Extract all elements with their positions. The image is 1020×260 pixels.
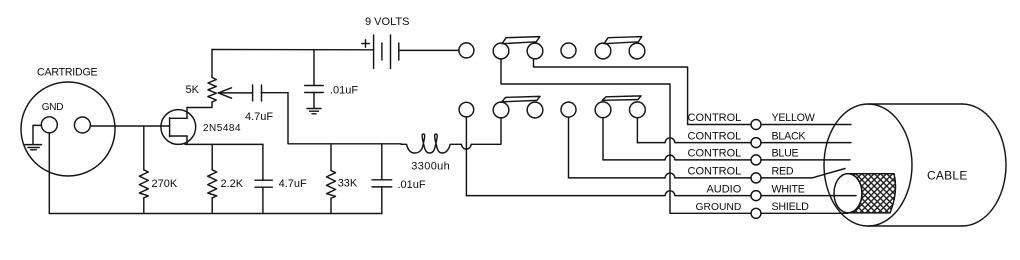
svg-text:BLACK: BLACK [772,130,807,142]
svg-text:BLUE: BLUE [772,148,799,160]
cartridge pin signal [74,117,90,133]
svg-text:2N5484: 2N5484 [203,123,241,134]
wire control black row with hop [637,138,851,143]
node plug pin A2 [493,43,509,59]
ground [307,109,321,114]
svg-text:CABLE: CABLE [927,168,968,182]
svg-text:4.7uF: 4.7uF [245,111,273,123]
cable inner conductor [834,174,862,213]
wire inductor to pin B2 with hop [457,118,501,149]
wire signal pin to gate [90,125,169,127]
cartridge body [21,82,115,176]
wire drain to pot [187,102,212,108]
node terminal white [751,191,761,201]
svg-text:33K: 33K [338,178,358,190]
wire rail to decoupling cap [313,50,315,86]
svg-text:CONTROL: CONTROL [688,166,742,178]
svg-text:CONTROL: CONTROL [688,112,742,124]
resistor R2 2.2K [208,144,217,213]
inductor L1 3300uh [401,134,457,153]
capacitor C3 4.7uF [255,144,272,213]
node plug pin B4 [561,102,576,117]
svg-text:3300uh: 3300uh [411,161,450,173]
cable body [824,104,1006,226]
svg-text:5K: 5K [186,84,200,96]
wire audio row with hop [466,191,856,196]
node plug pin B5 [595,102,611,118]
wire pin A2 to ground row [501,59,670,213]
node terminal shield [751,208,761,218]
svg-text:CONTROL: CONTROL [688,148,742,160]
svg-text:CONTROL: CONTROL [688,130,742,142]
node plug pin B2 [493,102,509,118]
svg-text:RED: RED [772,166,794,178]
wire source rail [185,143,263,145]
node terminal yellow [751,120,761,130]
ground [25,145,41,150]
svg-text:CARTRIDGE: CARTRIDGE [37,67,98,79]
node terminal black [751,138,761,148]
resistor R1 270K [139,126,148,214]
node terminal blue [751,155,761,165]
node plug pin A5 [595,43,611,59]
wire battery to plug pin [399,49,459,51]
wire pin A3 to control yellow [534,59,688,125]
wire pin B5 to control blue [602,118,604,160]
cartridge pin GND [41,117,57,133]
svg-text:9 VOLTS: 9 VOLTS [365,16,409,28]
svg-text:.01uF: .01uF [330,85,358,97]
svg-text:GND: GND [42,102,63,113]
wire ground row [670,212,848,214]
shorting bar A5-A6 [604,37,642,44]
resistor R3 33K [327,144,336,214]
wire coupling cap to inductor [288,93,401,144]
capacitor C1 4.7uF [253,85,288,101]
wire control blue row with hop [603,155,850,160]
svg-text:AUDIO: AUDIO [706,183,741,195]
node plug pin B1 [459,102,474,117]
node plug pin A4 [561,43,576,58]
node plug pin B3 [527,102,543,118]
wire pin B4 to control red [568,117,570,178]
svg-text:.01uF: .01uF [398,179,426,191]
shorting bar B2-B3 [502,96,540,101]
svg-text:GROUND: GROUND [696,202,742,213]
shorting bar A2-A3 [502,37,540,44]
wire pin B6 to control black [636,118,638,143]
capacitor C4 .01uF [372,144,392,214]
wire control yellow row [688,124,851,126]
svg-text:2.2K: 2.2K [221,178,244,190]
shorting bar B5-B6 [602,96,641,100]
wire gnd pin to ground rail [48,133,50,214]
transistor Q1 2N5484 [161,108,196,145]
node plug pin A1 [459,43,474,58]
svg-text:4.7uF: 4.7uF [279,178,307,190]
wire top rail [212,49,374,51]
wire ground rail [49,213,382,215]
capacitor C2 .01uF [305,86,324,109]
node terminal red [751,173,761,183]
potentiometer 5K [208,50,253,103]
node plug pin A3 [527,43,543,59]
svg-text:SHIELD: SHIELD [772,201,810,213]
node plug pin A6 [629,43,645,59]
wire pin to ground symbol [33,125,42,144]
battery B1 9V [362,35,399,69]
svg-text:270K: 270K [152,178,178,190]
svg-text:YELLOW: YELLOW [772,112,816,124]
node plug pin B6 [630,102,646,118]
wire pin B1 to audio row [465,117,467,196]
svg-text:WHITE: WHITE [772,183,805,195]
wire control red row with hop [569,169,846,178]
